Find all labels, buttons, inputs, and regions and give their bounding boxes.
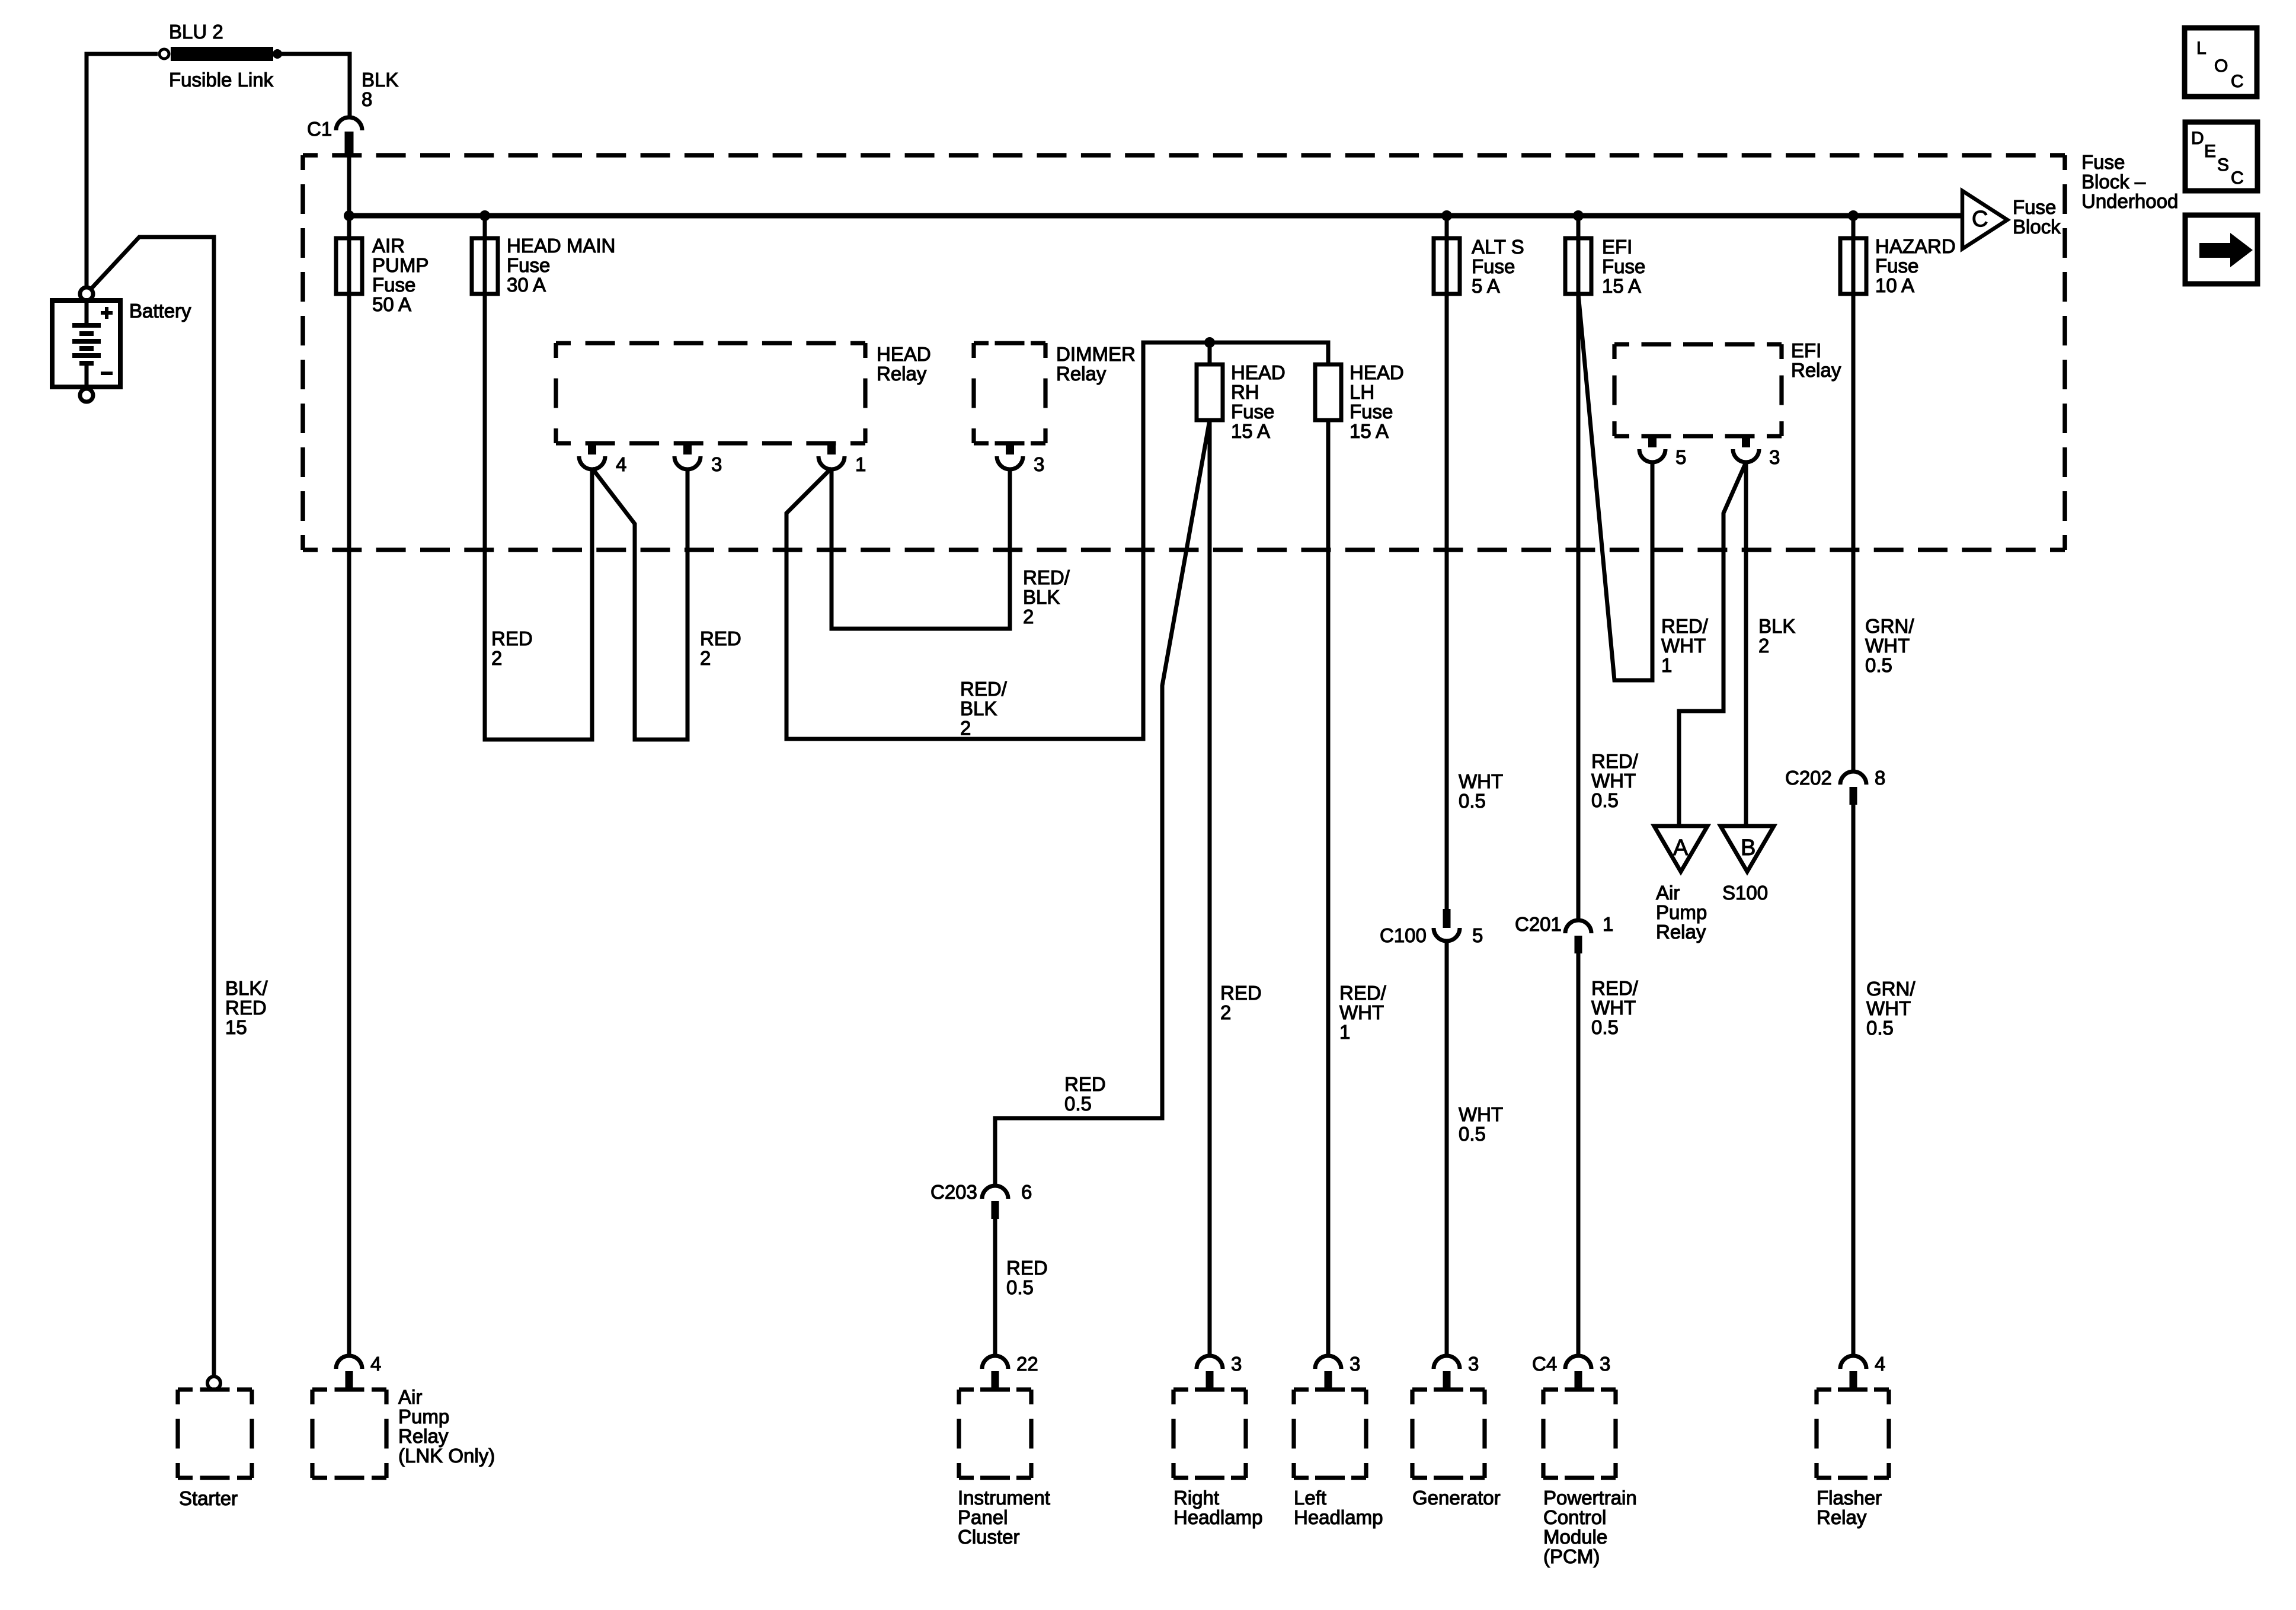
svg-text:WHT: WHT [1591, 770, 1636, 792]
svg-text:2: 2 [1758, 635, 1769, 657]
svg-text:Underhood: Underhood [2081, 190, 2178, 212]
svg-text:4: 4 [370, 1353, 381, 1375]
svg-text:WHT: WHT [1865, 635, 1910, 657]
svg-text:Relay: Relay [398, 1425, 449, 1447]
wire RED/WHT 0.5 C201 to PCM [1576, 948, 1581, 1356]
label Instrument Panel Cluster [958, 1487, 1050, 1548]
air pump relay pin 4 stub [346, 1371, 353, 1388]
label RED 2 head main wire [491, 628, 533, 669]
arrow icon [2199, 233, 2253, 267]
svg-text:B: B [1741, 836, 1755, 860]
battery positive terminal [80, 287, 93, 300]
LOC letters [2196, 39, 2244, 91]
svg-text:(LNK Only): (LNK Only) [398, 1445, 495, 1467]
svg-text:S: S [2217, 155, 2229, 175]
svg-text:10 A: 10 A [1875, 274, 1914, 296]
svg-text:RED/: RED/ [1591, 750, 1639, 772]
flasher relay pin 4 arc [1840, 1356, 1866, 1369]
label HEAD RH Fuse 15 A [1231, 361, 1285, 442]
right headlamp pin 3 arc [1197, 1356, 1223, 1369]
fuse AIR PUMP 50A [336, 238, 362, 294]
svg-text:BLK/: BLK/ [225, 977, 268, 999]
label A in triangle [1673, 836, 1689, 860]
label pin 1 [855, 453, 866, 475]
svg-text:Relay: Relay [1791, 359, 1841, 381]
label dimmer pin 3 [1034, 453, 1044, 475]
svg-text:Relay: Relay [1656, 921, 1706, 943]
label RED 0.5 lower [1006, 1257, 1048, 1298]
label RED 0.5 upper [1064, 1073, 1106, 1115]
connector C201 arc [1565, 920, 1591, 933]
battery box [52, 300, 120, 387]
wire EFI fuse to PCM [1576, 216, 1581, 920]
junction at HEAD RH fuse [1204, 337, 1215, 348]
relay EFI dashed box [1614, 344, 1782, 436]
label generator pin 3 [1468, 1353, 1479, 1375]
label RED/WHT 0.5 below C201 [1591, 977, 1639, 1038]
label flasher pin 4 [1875, 1353, 1885, 1375]
label GRN/WHT 0.5 lower [1866, 978, 1916, 1039]
svg-text:RED: RED [1064, 1073, 1106, 1095]
head relay pin 1 arc [818, 456, 845, 469]
svg-text:D: D [2191, 129, 2204, 148]
label Fusible Link [169, 69, 274, 91]
cluster pin 22 stub [992, 1371, 999, 1388]
battery cells [72, 300, 101, 389]
triangle A air pump relay [1654, 826, 1707, 872]
svg-text:HEAD: HEAD [1231, 361, 1285, 383]
svg-text:Instrument: Instrument [958, 1487, 1050, 1509]
label WHT 0.5 below C100 [1459, 1103, 1503, 1145]
wire RED/BLK 2 head pin1 to dimmer pin3 [832, 468, 1010, 629]
DESC letters [2191, 129, 2244, 188]
svg-text:S100: S100 [1722, 882, 1768, 904]
svg-text:LH: LH [1350, 381, 1374, 403]
svg-text:1: 1 [1661, 654, 1672, 676]
svg-text:C202: C202 [1785, 767, 1832, 789]
wire fusible link to C1 [273, 54, 350, 117]
fuse block underhood dashed box [303, 155, 2065, 550]
label BLK 8 [362, 69, 398, 110]
svg-text:HEAD: HEAD [877, 343, 931, 365]
svg-text:Relay: Relay [1056, 363, 1107, 385]
svg-text:3: 3 [1350, 1353, 1360, 1375]
svg-text:3: 3 [1231, 1353, 1242, 1375]
connector C100 arc [1434, 928, 1460, 941]
battery negative terminal [80, 389, 93, 402]
svg-text:1: 1 [1603, 913, 1613, 935]
label efi pin 3 [1769, 446, 1780, 468]
label C202 [1785, 767, 1832, 789]
svg-text:3: 3 [1468, 1353, 1479, 1375]
label HEAD Relay [877, 343, 931, 385]
label BLK/RED 15 [225, 977, 268, 1038]
svg-text:GRN/: GRN/ [1866, 978, 1916, 1000]
label GRN/WHT 0.5 upper [1865, 615, 1914, 676]
head relay pin 3 arc [674, 456, 701, 469]
svg-text:RED/: RED/ [960, 678, 1008, 700]
generator dashed box [1412, 1390, 1485, 1478]
wire battery+ to fusible link [87, 54, 158, 287]
svg-text:HAZARD: HAZARD [1875, 235, 1956, 257]
svg-text:Fuse: Fuse [372, 274, 415, 296]
svg-text:0.5: 0.5 [1006, 1276, 1034, 1298]
connector C202 arc [1840, 772, 1866, 785]
svg-text:C: C [2231, 168, 2244, 188]
head relay pin 4 stub [588, 443, 596, 454]
efi relay pin 3 stub [1742, 436, 1750, 447]
starter ring terminal [207, 1377, 220, 1390]
off-page triangle C [1962, 191, 2007, 249]
pcm connector C4 arc [1565, 1356, 1591, 1369]
label right headlamp pin 3 [1231, 1353, 1242, 1375]
svg-text:2: 2 [1220, 1001, 1231, 1023]
fusible link F1 [171, 47, 273, 61]
svg-text:Starter: Starter [179, 1487, 238, 1509]
svg-text:Panel: Panel [958, 1506, 1008, 1528]
LOC legend box [2185, 28, 2257, 97]
svg-text:RED: RED [1006, 1257, 1048, 1279]
svg-text:0.5: 0.5 [1591, 789, 1619, 811]
connector C202 stub [1850, 787, 1857, 805]
svg-text:3: 3 [711, 453, 722, 475]
svg-text:HEAD: HEAD [1350, 361, 1404, 383]
svg-text:8: 8 [362, 88, 372, 110]
svg-text:0.5: 0.5 [1866, 1017, 1894, 1039]
starter dashed box [178, 1390, 252, 1478]
wire AIR PUMP fuse to air pump relay [347, 216, 351, 1356]
svg-text:Fuse: Fuse [1472, 255, 1515, 277]
label RED/WHT 1 efi [1661, 615, 1709, 676]
pcm connector C4 stub [1575, 1371, 1582, 1388]
right headlamp pin 3 stub [1206, 1371, 1214, 1388]
wire BLK/RED 15 battery to starter [91, 237, 214, 1376]
label RED/WHT 1 left headlamp [1339, 982, 1387, 1043]
label C in triangle [1972, 207, 1988, 232]
left headlamp dashed box [1294, 1390, 1366, 1478]
connector C201 stub [1575, 936, 1582, 953]
fuse EFI 15A [1565, 238, 1591, 294]
label C100 [1380, 924, 1427, 946]
label C1 [307, 118, 332, 140]
svg-text:2: 2 [1023, 606, 1034, 628]
svg-text:Fuse: Fuse [1350, 401, 1393, 422]
wire RED/WHT pin3 to air pump relay triangle [1679, 462, 1746, 826]
svg-text:BLK: BLK [1023, 586, 1060, 608]
svg-text:RED/: RED/ [1339, 982, 1387, 1004]
bus junction at HEAD MAIN fuse [479, 210, 490, 221]
left headlamp pin 3 stub [1325, 1371, 1332, 1388]
svg-text:BLK: BLK [960, 697, 997, 719]
right headlamp dashed box [1173, 1390, 1246, 1478]
label BLU 2 [169, 21, 223, 43]
svg-text:Headlamp: Headlamp [1173, 1506, 1262, 1528]
svg-text:C1: C1 [307, 118, 332, 140]
connector C1 stub [345, 132, 354, 154]
svg-text:EFI: EFI [1602, 236, 1632, 258]
connector C100 stub [1443, 909, 1451, 928]
label HAZARD Fuse 10 A [1875, 235, 1956, 296]
head relay pin 4 arc [579, 456, 605, 469]
label RED/BLK 2 lower [960, 678, 1008, 739]
label pin 3 [711, 453, 722, 475]
svg-text:Air: Air [398, 1386, 422, 1408]
connector C203 arc [982, 1186, 1008, 1199]
triangle B S100 [1721, 826, 1774, 872]
svg-text:15 A: 15 A [1602, 275, 1641, 297]
efi relay pin 5 stub [1648, 436, 1657, 447]
wire WHT 0.5 C100 to generator [1445, 941, 1449, 1356]
svg-text:WHT: WHT [1661, 635, 1706, 657]
label Starter [179, 1487, 238, 1509]
battery minus sign [101, 372, 113, 375]
svg-text:RED: RED [700, 628, 741, 649]
wire RED 2 to right headlamp [1208, 420, 1212, 1356]
left headlamp pin 3 arc [1315, 1356, 1341, 1369]
generator pin 3 arc [1434, 1356, 1460, 1369]
svg-text:PUMP: PUMP [372, 254, 428, 276]
svg-text:15 A: 15 A [1231, 420, 1270, 442]
svg-text:Fuse: Fuse [1875, 255, 1918, 277]
svg-text:Cluster: Cluster [958, 1526, 1020, 1548]
label C201 pin 1 [1603, 913, 1613, 935]
fuse HEAD MAIN 30A [472, 238, 498, 294]
svg-text:Fuse: Fuse [1602, 255, 1645, 277]
flasher relay pin 4 stub [1850, 1371, 1857, 1388]
svg-text:50 A: 50 A [372, 293, 411, 315]
label cluster pin 22 [1016, 1353, 1038, 1375]
svg-text:0.5: 0.5 [1459, 1123, 1486, 1145]
wire C1 to bus [347, 148, 351, 238]
label Powertrain Control Module PCM [1543, 1487, 1637, 1567]
svg-text:5 A: 5 A [1472, 275, 1500, 297]
label air pump relay pin 4 [370, 1353, 381, 1375]
wire HEAD MAIN fuse to head relay pin 4 [485, 216, 592, 740]
svg-text:EFI: EFI [1791, 340, 1821, 361]
svg-text:Fuse: Fuse [507, 254, 550, 276]
svg-text:0.5: 0.5 [1064, 1093, 1092, 1115]
label EFI Relay [1791, 340, 1841, 381]
svg-text:0.5: 0.5 [1865, 654, 1892, 676]
label RED/BLK 2 upper [1023, 566, 1070, 628]
svg-text:WHT: WHT [1459, 1103, 1503, 1125]
fusible link right junction [273, 49, 282, 59]
label Air Pump Relay LNK Only [398, 1386, 495, 1467]
svg-text:Block –: Block – [2081, 171, 2146, 193]
label C4 [1532, 1353, 1557, 1375]
fuse HEAD RH 15A [1197, 364, 1223, 420]
svg-text:WHT: WHT [1591, 997, 1636, 1019]
wire RED/WHT 1 EFI fuse to relay pin 5 [1578, 294, 1652, 680]
wire RED 0.5 C203 to cluster [993, 1213, 997, 1356]
svg-text:2: 2 [491, 647, 502, 669]
label BLK 2 [1758, 615, 1795, 657]
svg-text:L: L [2196, 39, 2207, 58]
label pcm pin 3 [1600, 1353, 1610, 1375]
svg-text:(PCM): (PCM) [1543, 1545, 1600, 1567]
svg-text:Flasher: Flasher [1817, 1487, 1882, 1509]
svg-text:1: 1 [855, 453, 866, 475]
wire RED/WHT 1 to left headlamp [1326, 420, 1331, 1356]
efi relay pin 3 arc [1733, 449, 1759, 462]
wire RED 2 pin4 to pin3 loop [592, 468, 687, 740]
svg-text:C201: C201 [1515, 913, 1562, 935]
svg-text:A: A [1673, 836, 1689, 860]
label WHT 0.5 above C100 [1459, 770, 1503, 812]
label C100 pin 5 [1472, 924, 1483, 946]
label C203 pin 6 [1021, 1181, 1032, 1203]
bus junction at HAZARD fuse [1848, 210, 1859, 221]
head relay pin 1 stub [827, 443, 836, 454]
svg-text:WHT: WHT [1866, 997, 1911, 1019]
svg-text:Module: Module [1543, 1526, 1607, 1548]
pcm dashed box [1543, 1390, 1616, 1478]
dimmer relay pin 3 arc [997, 456, 1023, 469]
flasher relay dashed box [1817, 1390, 1889, 1478]
svg-text:3: 3 [1034, 453, 1044, 475]
svg-text:3: 3 [1600, 1353, 1610, 1375]
instrument panel cluster dashed box [959, 1390, 1031, 1478]
head relay pin 3 stub [683, 443, 692, 454]
svg-text:Left: Left [1294, 1487, 1326, 1509]
label B in triangle [1741, 836, 1755, 860]
svg-text:GRN/: GRN/ [1865, 615, 1914, 637]
label HEAD MAIN Fuse 30 A [507, 235, 615, 296]
svg-text:4: 4 [1875, 1353, 1885, 1375]
DESC legend box [2185, 122, 2257, 191]
label C202 pin 8 [1875, 767, 1885, 789]
label ALT S Fuse 5 A [1472, 236, 1524, 297]
bus junction at EFI fuse [1573, 210, 1584, 221]
air pump relay dashed box [312, 1390, 386, 1478]
label S100 [1722, 882, 1768, 904]
label RED/WHT 0.5 above C201 [1591, 750, 1639, 811]
svg-text:WHT: WHT [1459, 770, 1503, 792]
label RED 2 right headlamp [1220, 982, 1262, 1023]
label Generator [1412, 1487, 1501, 1509]
svg-text:WHT: WHT [1339, 1001, 1384, 1023]
wire RED/BLK 2 pin1 to head fuses [786, 343, 1328, 739]
svg-text:Relay: Relay [1817, 1506, 1867, 1528]
battery label [129, 300, 191, 322]
svg-text:Fusible Link: Fusible Link [169, 69, 274, 91]
svg-text:3: 3 [1769, 446, 1780, 468]
fuse HAZARD 10A [1840, 238, 1866, 294]
svg-text:Powertrain: Powertrain [1543, 1487, 1637, 1509]
svg-text:Pump: Pump [398, 1406, 449, 1427]
svg-text:BLU 2: BLU 2 [169, 21, 223, 43]
wire BLK 2 pin3 to S100 [1744, 462, 1748, 826]
dimmer relay pin 3 stub [1006, 443, 1014, 454]
svg-text:22: 22 [1016, 1353, 1038, 1375]
arrow legend box [2185, 215, 2257, 284]
relay DIMMER dashed box [974, 343, 1045, 443]
battery plus sign [101, 307, 113, 319]
svg-text:Headlamp: Headlamp [1294, 1506, 1383, 1528]
svg-text:C100: C100 [1380, 924, 1427, 946]
svg-text:Fuse: Fuse [2081, 151, 2125, 173]
svg-text:Pump: Pump [1656, 901, 1707, 923]
svg-text:Control: Control [1543, 1506, 1606, 1528]
cluster pin 22 arc [982, 1356, 1008, 1369]
svg-text:C: C [1972, 207, 1988, 232]
svg-text:Right: Right [1173, 1487, 1219, 1509]
fuse ALT S 5A [1434, 238, 1460, 294]
wire RED 0.5 head RH to C203 [995, 420, 1210, 1186]
svg-text:6: 6 [1021, 1181, 1032, 1203]
label C201 [1515, 913, 1562, 935]
svg-text:RED/: RED/ [1591, 977, 1639, 999]
bus junction at AIR PUMP fuse [344, 210, 354, 221]
svg-text:AIR: AIR [372, 235, 405, 257]
fusible link left terminal [159, 49, 169, 59]
svg-text:Block: Block [2013, 216, 2061, 238]
svg-text:0.5: 0.5 [1459, 790, 1486, 812]
svg-text:Relay: Relay [877, 363, 927, 385]
svg-text:5: 5 [1472, 924, 1483, 946]
label pin 4 [616, 453, 626, 475]
svg-text:RED: RED [225, 997, 267, 1019]
generator pin 3 stub [1443, 1371, 1451, 1388]
label AIR PUMP Fuse 50 A [372, 235, 428, 315]
label Left Headlamp [1294, 1487, 1383, 1528]
svg-text:Generator: Generator [1412, 1487, 1501, 1509]
fuse HEAD LH 15A [1315, 364, 1341, 420]
label DIMMER Relay [1056, 343, 1136, 385]
svg-text:C: C [2231, 72, 2244, 91]
wire GRN/WHT 0.5 C202 to flasher [1851, 799, 1856, 1356]
efi relay pin 5 arc [1639, 449, 1665, 462]
svg-text:RED: RED [491, 628, 533, 649]
svg-text:Battery: Battery [129, 300, 191, 322]
label efi pin 5 [1675, 446, 1686, 468]
label RED 2 loop [700, 628, 741, 669]
svg-text:E: E [2204, 142, 2216, 161]
svg-text:Fuse: Fuse [1231, 401, 1274, 422]
label C203 [930, 1181, 977, 1203]
svg-text:8: 8 [1875, 767, 1885, 789]
svg-text:C4: C4 [1532, 1353, 1557, 1375]
svg-text:RED/: RED/ [1023, 566, 1070, 588]
svg-text:RED/: RED/ [1661, 615, 1709, 637]
svg-text:5: 5 [1675, 446, 1686, 468]
label HEAD LH Fuse 15 A [1350, 361, 1404, 442]
wire ALT S fuse to generator [1445, 216, 1449, 909]
svg-text:C203: C203 [930, 1181, 977, 1203]
connector C1 arc [336, 117, 362, 130]
relay HEAD dashed box [556, 343, 865, 443]
wire HAZARD fuse to flasher relay [1851, 216, 1856, 772]
svg-text:2: 2 [960, 717, 971, 739]
label EFI Fuse 15 A [1602, 236, 1645, 297]
label Air Pump Relay under triangle A [1656, 882, 1707, 943]
svg-text:O: O [2214, 56, 2228, 76]
label Flasher Relay [1817, 1487, 1882, 1528]
svg-text:15 A: 15 A [1350, 420, 1389, 442]
svg-text:Air: Air [1656, 882, 1680, 904]
svg-text:2: 2 [700, 647, 711, 669]
svg-text:HEAD MAIN: HEAD MAIN [507, 235, 615, 257]
svg-text:ALT S: ALT S [1472, 236, 1524, 258]
svg-text:DIMMER: DIMMER [1056, 343, 1136, 365]
air pump relay pin 4 arc [336, 1356, 362, 1369]
label Fuse Block - Underhood [2081, 151, 2178, 212]
svg-text:BLK: BLK [1758, 615, 1795, 637]
svg-text:BLK: BLK [362, 69, 398, 91]
svg-text:0.5: 0.5 [1591, 1016, 1619, 1038]
label left headlamp pin 3 [1350, 1353, 1360, 1375]
label Fuse Block [2013, 196, 2061, 238]
